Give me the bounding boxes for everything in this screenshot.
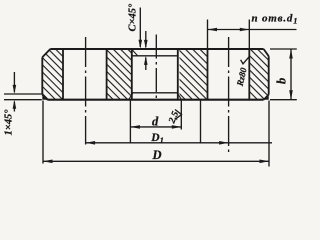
- surface roughness mark Rz80: [241, 56, 250, 64]
- center hole top chamfer line: [132, 55, 178, 57]
- flange axis centerline: [155, 35, 157, 101]
- extension line D right: [268, 101, 270, 167]
- center hole bottom-left chamfer diagonal: [129, 93, 133, 100]
- bottom-left chamfer: [42, 95, 47, 100]
- leader arrow C x45: [139, 8, 141, 48]
- dimension line b: [290, 49, 292, 100]
- svg-text:d: d: [152, 115, 159, 129]
- flange right edge: [268, 56, 270, 94]
- top-left chamfer: [42, 49, 50, 57]
- hatched section left outer rim: [42, 49, 63, 100]
- left bolt hole left wall: [62, 49, 64, 100]
- flange bottom edge: [47, 99, 263, 101]
- bottom-right chamfer: [264, 95, 269, 100]
- dimension line D1: [86, 142, 272, 144]
- extension line b bottom: [270, 99, 297, 101]
- extension lines 1x45 chamfer: [4, 93, 42, 95]
- center hole right wall: [177, 49, 179, 100]
- chamfer depth dimension arrows: [145, 31, 147, 47]
- extension line b top: [270, 48, 297, 50]
- svg-text:C×45°: C×45°: [128, 3, 139, 31]
- svg-text:D: D: [152, 148, 162, 162]
- svg-text:n отв.d1: n отв.d1: [252, 13, 299, 26]
- flange top edge: [50, 48, 263, 50]
- extension line node at 200.5: [200, 101, 202, 143]
- left bolt hole right wall: [106, 49, 108, 100]
- svg-text:1×45°: 1×45°: [4, 109, 15, 136]
- extension line bolt hole right wall up: [248, 20, 250, 50]
- dimension line D: [43, 160, 269, 162]
- center hole bottom-right chamfer diagonal: [177, 93, 182, 100]
- hatched section right outer rim: [249, 49, 268, 100]
- leader arrow 2,5: [175, 110, 182, 120]
- top-right chamfer: [264, 49, 269, 56]
- right bolt hole left wall: [207, 49, 209, 100]
- right bolt hole right wall: [248, 49, 250, 100]
- extension line D left: [42, 101, 44, 164]
- center hole bottom chamfer line: [132, 92, 178, 94]
- center hole top-left chamfer diagonal: [132, 49, 138, 55]
- flange left edge: [41, 57, 43, 94]
- dimension line n otv d1: [208, 29, 297, 31]
- dimension line d: [130, 126, 181, 128]
- extension line d right: [180, 101, 182, 130]
- center hole left wall: [131, 49, 133, 100]
- svg-text:b: b: [275, 78, 289, 84]
- chamfer 1x45 dimension arrows: [13, 72, 15, 92]
- bolt axis centerline right: [228, 37, 230, 154]
- extension line bolt hole left wall up: [207, 20, 209, 50]
- bolt axis centerline left: [85, 37, 87, 145]
- extension line d left: [129, 101, 131, 144]
- hatched section right inner web: [180, 49, 208, 100]
- hatched section left inner web: [107, 49, 132, 100]
